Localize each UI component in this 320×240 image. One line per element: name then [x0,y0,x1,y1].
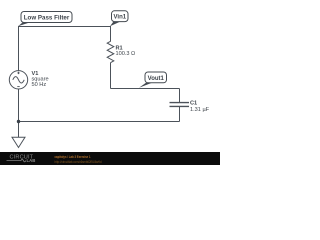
svg-text:1.31 µF: 1.31 µF [190,107,210,113]
svg-text:Vin1: Vin1 [114,15,127,21]
svg-text:Low Pass Filter: Low Pass Filter [24,15,70,21]
svg-text:http://circuitlab.com/c6smb62f: http://circuitlab.com/c6smb62f5U6w9d [55,160,102,164]
svg-text:C1: C1 [190,100,197,106]
svg-text:Vout1: Vout1 [148,76,165,82]
svg-text:100.3 Ω: 100.3 Ω [116,51,136,57]
svg-text:LAB: LAB [27,158,36,163]
svg-text:capitolys / Lab 3 Exercise 1: capitolys / Lab 3 Exercise 1 [55,155,91,159]
svg-text:50 Hz: 50 Hz [32,82,47,88]
